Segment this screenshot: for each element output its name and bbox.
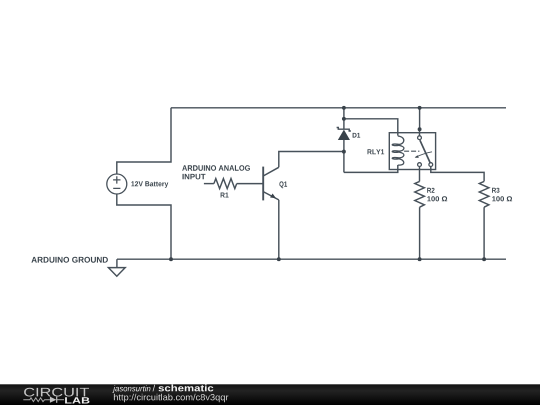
wire battery negative to ground rail (117, 194, 171, 259)
relay switch common contact (418, 136, 422, 140)
value label R2 100 ohm (427, 196, 447, 201)
wire ground rail (117, 258, 506, 260)
resistor R3 (479, 181, 489, 207)
transistor Q1 NPN (263, 167, 279, 201)
wire relay coil bottom to D1 anode column (344, 165, 398, 172)
relay coil (392, 136, 404, 165)
node relay common pin (418, 127, 422, 131)
wire R1 to Q1 base (237, 183, 264, 185)
net label ARDUINO GROUND (31, 257, 108, 263)
wire D1 anode node down (343, 140, 345, 173)
node top rail / relay common (418, 106, 422, 110)
footer url (114, 394, 228, 402)
node ground / R2 (418, 257, 422, 261)
wire R3 to ground rail (483, 207, 485, 259)
ground symbol ARDUINO GROUND (108, 259, 125, 276)
wire battery positive to top rail (117, 108, 171, 174)
value label R3 100 ohm (492, 196, 512, 201)
logo LAB (65, 397, 89, 403)
relay switch NO contact (418, 163, 422, 167)
wire R2 to ground rail (419, 207, 421, 259)
relay motion arc (416, 152, 433, 157)
label RLY1 (368, 149, 385, 154)
net label ARDUINO ANALOG INPUT (182, 165, 250, 171)
logo CIRCUIT (24, 388, 89, 397)
wire Q1 emitter to ground rail (278, 200, 280, 259)
resistor R2 (415, 181, 425, 207)
battery V1 12V (107, 174, 127, 194)
wire relay NO contact to R2 (419, 166, 421, 181)
relay RLY1 (389, 133, 435, 170)
logo diode (50, 397, 57, 403)
diode D1 schottky (337, 128, 351, 140)
wire relay common pin stub (419, 129, 421, 136)
wire arduino analog input stub (204, 183, 214, 185)
wire top rail to D1 cathode (343, 108, 345, 130)
label R3 (492, 188, 499, 193)
node ground / R3 (482, 257, 486, 261)
arrow relay motion (415, 155, 419, 158)
node D1 / coil top (342, 117, 346, 121)
label Q1 (279, 181, 287, 188)
label R1 (221, 193, 229, 198)
wire top rail (171, 107, 506, 109)
node ground / battery (169, 257, 173, 261)
relay box (389, 133, 435, 170)
label 12V Battery (131, 181, 168, 188)
footer author (112, 385, 150, 393)
label R2 (427, 188, 434, 193)
wire node to relay coil top (344, 119, 398, 136)
logo schematic squiggle wire (23, 398, 50, 402)
relay switch arm (420, 140, 430, 163)
relay coupling dashed line (404, 150, 419, 152)
relay switch NC contact (429, 163, 433, 167)
wire relay NC contact to R3 (431, 166, 484, 181)
node top rail / D1 (342, 106, 346, 110)
arrow Q1 emitter (270, 194, 276, 199)
resistor R1 (214, 179, 237, 189)
junction dots (169, 106, 486, 261)
wire top rail to relay common pin (419, 108, 421, 129)
wire Q1 collector to D1 anode node (279, 152, 344, 168)
node ground / Q1 emitter (277, 257, 281, 261)
node D1 anode / Q1 collector (342, 150, 346, 154)
label D1 (353, 133, 361, 138)
